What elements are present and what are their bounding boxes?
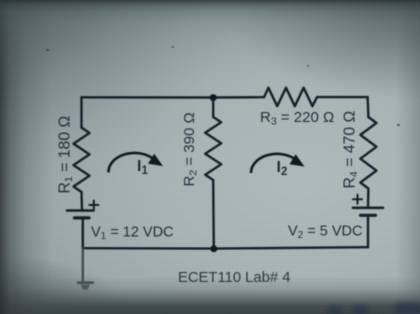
wire battery V2 to bottom xyxy=(367,215,369,247)
resistor R3 xyxy=(264,88,317,107)
wire right branch upper xyxy=(366,97,369,117)
wire middle branch lower xyxy=(212,180,215,249)
wire left branch upper xyxy=(80,97,82,127)
bottom-right blue smudge 3 xyxy=(396,303,420,314)
wire bottom left segment xyxy=(83,247,214,250)
node bottom junction xyxy=(210,245,217,252)
wire top left segment xyxy=(82,96,214,99)
bottom-right blue smudge 1 xyxy=(328,307,343,314)
loop arrow I2 xyxy=(251,154,304,173)
resistor R1 xyxy=(74,128,90,192)
wire bottom right segment xyxy=(214,247,368,248)
wire battery V1 to bottom xyxy=(82,218,84,248)
V2 plus sign xyxy=(353,195,362,204)
wire R1 to battery V1 xyxy=(80,192,83,211)
ground stem wire xyxy=(82,248,84,283)
loop arrow I1 xyxy=(108,153,162,173)
resistor R2 xyxy=(205,117,221,180)
node top junction xyxy=(210,94,217,101)
wire top middle segment xyxy=(213,96,264,99)
ground xyxy=(77,283,94,290)
wire top right segment xyxy=(317,96,368,98)
resistor R4 xyxy=(360,117,376,189)
battery V1 xyxy=(67,211,94,218)
wire middle branch upper xyxy=(212,98,214,118)
battery V2 xyxy=(353,208,383,216)
bottom-right blue smudge 2 xyxy=(352,306,368,314)
wire R4 to battery V2 xyxy=(367,189,370,208)
V1 plus sign xyxy=(89,201,98,210)
